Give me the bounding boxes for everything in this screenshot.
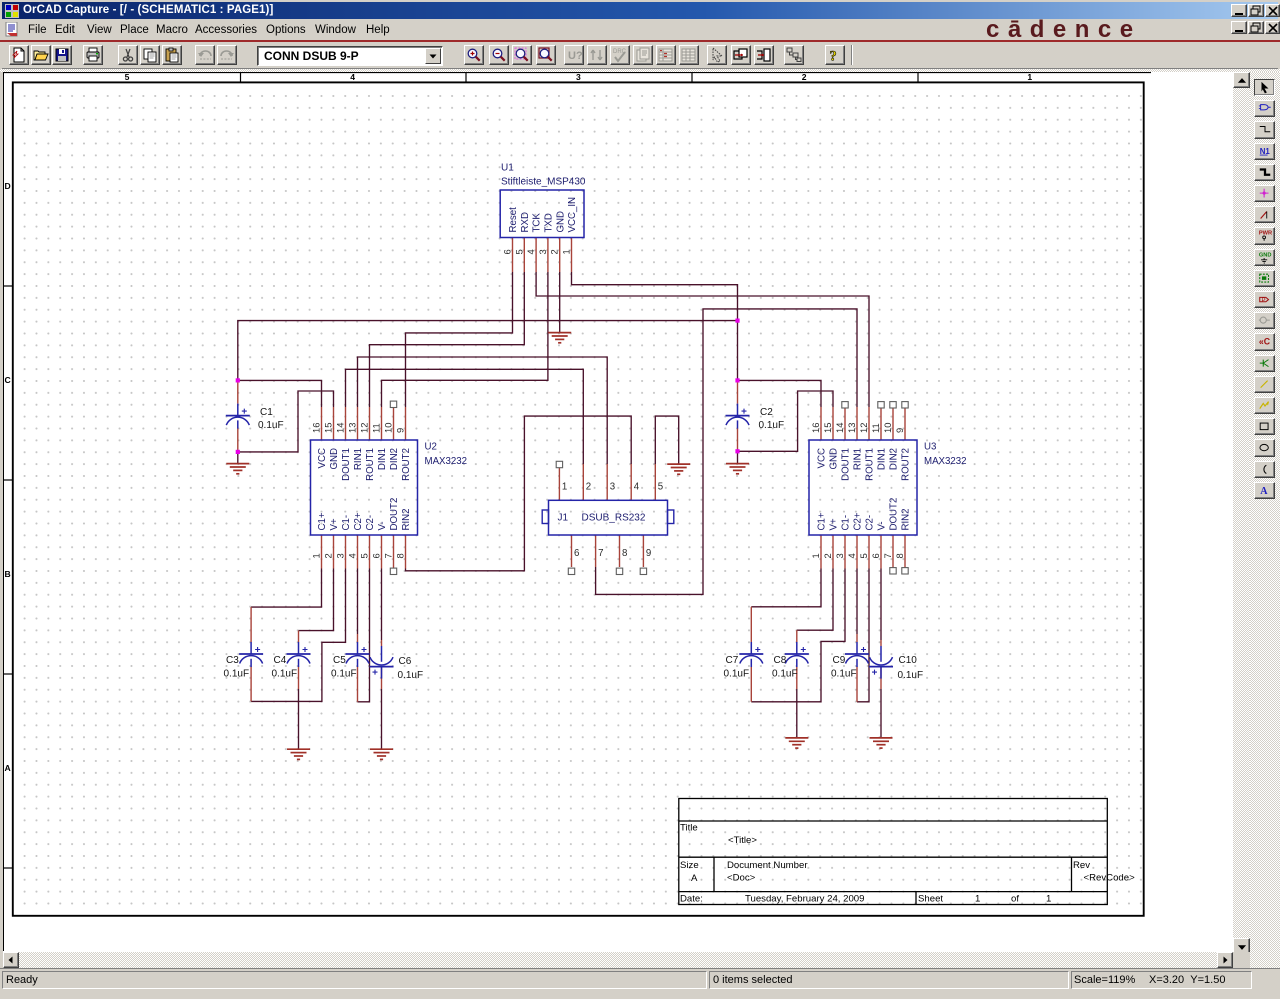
svg-text:Reset: Reset — [508, 207, 519, 233]
svg-text:DIN1: DIN1 — [377, 448, 388, 470]
svg-text:3: 3 — [576, 72, 581, 82]
svg-text:Rev: Rev — [1073, 860, 1090, 871]
svg-text:0.1uF: 0.1uF — [831, 669, 857, 680]
svg-text:C1+: C1+ — [317, 512, 328, 530]
svg-text:ROUT1: ROUT1 — [365, 448, 376, 481]
svg-text:1: 1 — [1027, 72, 1032, 82]
svg-text:2: 2 — [802, 72, 807, 82]
svg-text:1: 1 — [975, 894, 980, 905]
svg-text:5: 5 — [658, 482, 663, 493]
svg-text:ROUT2: ROUT2 — [901, 448, 912, 481]
svg-text:0.1uF: 0.1uF — [759, 420, 785, 431]
svg-text:U3: U3 — [924, 442, 936, 453]
svg-text:8: 8 — [894, 553, 905, 558]
svg-text:0.1uF: 0.1uF — [772, 669, 798, 680]
svg-text:5: 5 — [125, 72, 130, 82]
svg-text:GND: GND — [329, 448, 340, 470]
svg-text:14: 14 — [834, 423, 845, 433]
svg-text:RIN2: RIN2 — [901, 508, 912, 530]
svg-text:C2-: C2- — [365, 515, 376, 531]
svg-text:16: 16 — [810, 423, 821, 433]
svg-text:MAX3232: MAX3232 — [924, 456, 967, 467]
svg-text:U1: U1 — [501, 163, 514, 174]
svg-text:C8: C8 — [774, 655, 787, 666]
svg-text:3: 3 — [335, 553, 346, 558]
svg-text:C1: C1 — [260, 407, 273, 418]
svg-text:0.1uF: 0.1uF — [724, 669, 750, 680]
svg-text:C2+: C2+ — [853, 512, 864, 530]
svg-text:P: P — [1262, 297, 1266, 304]
svg-text:TCK: TCK — [532, 213, 543, 233]
svg-text:J1: J1 — [558, 513, 569, 524]
svg-text:5: 5 — [359, 553, 370, 558]
svg-text:U?: U? — [568, 50, 582, 62]
svg-text:DOUT1: DOUT1 — [841, 448, 852, 481]
svg-text:of: of — [1011, 894, 1019, 905]
svg-text:1: 1 — [562, 482, 567, 493]
svg-text:0.1uF: 0.1uF — [898, 670, 924, 681]
svg-text:3: 3 — [610, 482, 615, 493]
svg-text:A: A — [691, 873, 698, 884]
svg-text:9: 9 — [395, 428, 406, 433]
svg-text:0.1uF: 0.1uF — [224, 669, 250, 680]
svg-text:PWR: PWR — [1259, 231, 1272, 237]
svg-text:13: 13 — [846, 423, 857, 433]
svg-text:0.1uF: 0.1uF — [258, 420, 284, 431]
svg-text:Tuesday, February 24, 2009: Tuesday, February 24, 2009 — [745, 894, 864, 905]
svg-text:<RevCode>: <RevCode> — [1084, 873, 1136, 884]
svg-text:Stiftleiste_MSP430: Stiftleiste_MSP430 — [501, 177, 586, 188]
svg-text:C2+: C2+ — [353, 512, 364, 530]
svg-text:C: C — [4, 375, 10, 385]
svg-text:VCC_IN: VCC_IN — [567, 197, 578, 233]
svg-text:V-: V- — [377, 521, 388, 530]
svg-text:2: 2 — [549, 249, 560, 254]
svg-text:C1+: C1+ — [817, 512, 828, 530]
svg-text:15: 15 — [323, 423, 334, 433]
svg-text:4: 4 — [846, 553, 857, 558]
svg-text:C1-: C1- — [841, 515, 852, 531]
svg-text:13: 13 — [347, 423, 358, 433]
svg-text:6: 6 — [502, 249, 513, 254]
svg-text:C9: C9 — [833, 655, 846, 666]
svg-text:2: 2 — [323, 553, 334, 558]
svg-text:U2: U2 — [425, 442, 437, 453]
svg-text:12: 12 — [359, 423, 370, 433]
svg-text:C5: C5 — [333, 655, 346, 666]
svg-text:1: 1 — [311, 553, 322, 558]
svg-text:7: 7 — [598, 548, 603, 559]
svg-text:RIN2: RIN2 — [401, 508, 412, 530]
svg-text:2: 2 — [822, 553, 833, 558]
svg-text:12: 12 — [858, 423, 869, 433]
svg-text:16: 16 — [311, 423, 322, 433]
svg-text:4: 4 — [525, 249, 536, 254]
svg-text:DSUB_RS232: DSUB_RS232 — [582, 513, 646, 524]
svg-text:4: 4 — [350, 72, 355, 82]
svg-text:C7: C7 — [726, 655, 739, 666]
svg-text:0.1uF: 0.1uF — [272, 669, 298, 680]
svg-text:11: 11 — [371, 423, 382, 433]
svg-text:RXD: RXD — [520, 212, 531, 232]
svg-text:Size: Size — [680, 860, 699, 871]
svg-text:8: 8 — [395, 553, 406, 558]
svg-text:10: 10 — [882, 423, 893, 433]
svg-text:14: 14 — [335, 423, 346, 433]
svg-text:6: 6 — [371, 553, 382, 558]
svg-text:VCC: VCC — [817, 448, 828, 468]
svg-text:7: 7 — [383, 553, 394, 558]
svg-text:9: 9 — [646, 548, 651, 559]
svg-text:1: 1 — [1046, 894, 1051, 905]
svg-text:C6: C6 — [399, 656, 412, 667]
svg-text:Sheet: Sheet — [918, 894, 943, 905]
svg-text:2: 2 — [586, 482, 591, 493]
svg-text:RIN1: RIN1 — [353, 448, 364, 470]
svg-text:C1-: C1- — [341, 515, 352, 531]
svg-text:5: 5 — [513, 249, 524, 254]
svg-text:C10: C10 — [899, 655, 918, 666]
svg-text:DOUT2: DOUT2 — [389, 498, 400, 531]
svg-text:RIN1: RIN1 — [853, 448, 864, 470]
svg-text:1: 1 — [810, 553, 821, 558]
svg-text:ROUT1: ROUT1 — [865, 448, 876, 481]
svg-text:8: 8 — [622, 548, 627, 559]
svg-text:0.1uF: 0.1uF — [331, 669, 357, 680]
svg-text:DOUT1: DOUT1 — [341, 448, 352, 481]
svg-text:DIN2: DIN2 — [389, 448, 400, 470]
svg-text:V-: V- — [877, 521, 888, 530]
svg-text:9: 9 — [894, 428, 905, 433]
svg-text:3: 3 — [834, 553, 845, 558]
svg-text:Document Number: Document Number — [727, 860, 808, 871]
svg-text:4: 4 — [634, 482, 640, 493]
svg-text:C4: C4 — [274, 655, 287, 666]
svg-text:6: 6 — [574, 548, 579, 559]
svg-text:TXD: TXD — [544, 213, 555, 232]
svg-text:1: 1 — [561, 249, 572, 254]
svg-text:C2: C2 — [760, 407, 773, 418]
svg-text:B: B — [4, 569, 10, 579]
svg-text:15: 15 — [822, 423, 833, 433]
svg-text:?: ? — [829, 49, 836, 64]
svg-text:GND: GND — [1259, 252, 1272, 258]
svg-text:ROUT2: ROUT2 — [401, 448, 412, 481]
svg-text:«C: «C — [1259, 337, 1271, 347]
svg-text:MAX3232: MAX3232 — [425, 456, 468, 467]
svg-text:5: 5 — [858, 553, 869, 558]
svg-text:VCC: VCC — [317, 448, 328, 468]
svg-text:<Doc>: <Doc> — [727, 873, 756, 884]
svg-text:7: 7 — [882, 553, 893, 558]
svg-text:Date:: Date: — [680, 894, 703, 905]
svg-text:DIN2: DIN2 — [889, 448, 900, 470]
svg-text:6: 6 — [870, 553, 881, 558]
svg-text:GND: GND — [829, 448, 840, 470]
svg-text:A: A — [1260, 486, 1268, 497]
svg-text:11: 11 — [870, 423, 881, 433]
svg-text:DIN1: DIN1 — [877, 448, 888, 470]
svg-text:V+: V+ — [829, 518, 840, 530]
svg-text:DOUT2: DOUT2 — [889, 498, 900, 531]
svg-text:A: A — [4, 763, 10, 773]
svg-text:V+: V+ — [329, 518, 340, 530]
svg-text:<Title>: <Title> — [728, 835, 757, 846]
svg-text:C3: C3 — [226, 655, 239, 666]
svg-text:N1: N1 — [1260, 146, 1271, 155]
svg-text:C2-: C2- — [865, 515, 876, 531]
svg-text:Title: Title — [680, 823, 698, 834]
svg-text:3: 3 — [537, 249, 548, 254]
svg-text:0.1uF: 0.1uF — [398, 670, 424, 681]
svg-text:GND: GND — [555, 211, 566, 233]
svg-text:10: 10 — [383, 423, 394, 433]
svg-text:D: D — [4, 181, 10, 191]
svg-text:4: 4 — [347, 553, 358, 558]
